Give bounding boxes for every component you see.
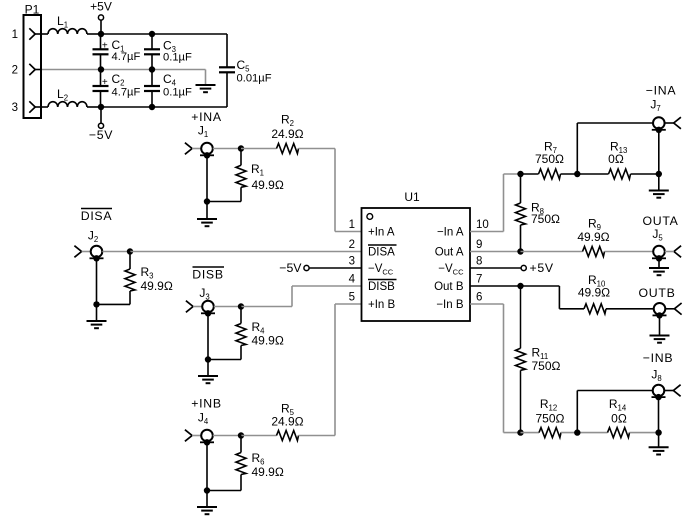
svg-text:J2: J2 <box>88 229 98 244</box>
svg-text:Out A: Out A <box>435 247 464 259</box>
wire pin7 node to R10 <box>521 286 585 309</box>
connector J5 <box>652 227 681 262</box>
svg-text:OUTA: OUTA <box>642 214 678 228</box>
U1 label +In B <box>368 299 396 311</box>
U1 label DISA <box>368 245 397 259</box>
svg-text:750Ω: 750Ω <box>536 412 565 426</box>
wire J3 to U1 pin 4 <box>241 286 362 307</box>
svg-text:2: 2 <box>349 239 355 251</box>
wire tap up to J7 <box>577 123 653 174</box>
svg-text:P1: P1 <box>25 3 40 17</box>
connector J2 <box>74 229 103 262</box>
junction node -5V rail at C2 <box>98 104 104 110</box>
svg-text:L1: L1 <box>57 14 68 29</box>
ground (J8) <box>649 447 669 454</box>
wire L2 to -5V node <box>87 106 101 108</box>
ground (J1) <box>197 219 217 226</box>
junction node J3 ground <box>205 356 211 362</box>
wire U1 pin 9 to R9 <box>470 251 521 253</box>
resistor R4 <box>236 307 284 360</box>
ground (J2) <box>87 321 107 328</box>
ground (J4) <box>197 507 217 514</box>
svg-text:0Ω: 0Ω <box>611 412 627 426</box>
wire J3 shell down <box>207 313 209 359</box>
junction node +5V rail at C3 <box>149 31 155 37</box>
svg-text:C4: C4 <box>163 72 177 87</box>
svg-text:DISB: DISB <box>192 268 224 282</box>
wire J4 to R6 node <box>213 435 241 437</box>
wire to ground J7 <box>658 174 660 191</box>
wire to ground J2 <box>96 304 98 321</box>
svg-text:J3: J3 <box>199 286 209 301</box>
connector J1 <box>185 124 214 159</box>
resistor R8 <box>516 174 561 252</box>
wire to ground J5 <box>658 258 660 268</box>
resistor R14 <box>608 397 659 438</box>
wire J4 shell down <box>206 442 208 490</box>
capacitor C3 <box>144 34 192 70</box>
label DISA <box>81 209 113 224</box>
connector J4 <box>185 411 214 446</box>
junction node J2/R3 <box>127 248 133 254</box>
wire C5 branch top <box>226 34 228 67</box>
svg-text:750Ω: 750Ω <box>532 359 561 373</box>
P1 pin 3 contact <box>29 101 48 112</box>
wire R3 bottom to J2 ground <box>97 303 131 305</box>
wire to ground J8 line <box>658 433 660 448</box>
wire J8 shell down <box>658 397 660 433</box>
U1 label Out B <box>434 281 464 293</box>
svg-text:C2: C2 <box>112 72 125 87</box>
svg-text:+In B: +In B <box>368 299 396 311</box>
U1 label -Vcc left <box>368 263 394 276</box>
wire U1 pin 6 down <box>470 304 521 433</box>
wire mid rail <box>42 69 206 71</box>
svg-text:Out B: Out B <box>434 281 464 293</box>
U1 pin number 6 <box>476 292 482 304</box>
wire J2 to R3 node <box>102 251 130 253</box>
connector J3 <box>186 286 215 316</box>
svg-text:49.9Ω: 49.9Ω <box>252 178 284 192</box>
svg-text:0.01µF: 0.01µF <box>237 73 272 85</box>
capacitor C5 <box>219 58 272 107</box>
junction node J2 ground <box>93 301 99 307</box>
svg-text:−5V: −5V <box>279 261 302 275</box>
svg-text:J4: J4 <box>198 411 209 426</box>
svg-text:−INA: −INA <box>646 84 677 98</box>
svg-text:4.7µF: 4.7µF <box>112 87 141 99</box>
U1 pin number 7 <box>476 274 482 286</box>
U1 label +In A <box>368 227 395 239</box>
svg-text:+In A: +In A <box>368 227 395 239</box>
junction node R7/R8 <box>517 171 523 177</box>
P1 pin 2 number <box>12 65 18 77</box>
junction node mid rail at C3 <box>149 66 155 72</box>
label DISB <box>192 267 224 282</box>
U1 label -In B <box>436 299 464 311</box>
svg-text:−VCC: −VCC <box>438 263 464 276</box>
svg-text:49.9Ω: 49.9Ω <box>578 286 610 300</box>
svg-text:−In A: −In A <box>437 227 464 239</box>
svg-text:J5: J5 <box>652 227 663 242</box>
connector J7 <box>650 98 681 134</box>
svg-text:0.1µF: 0.1µF <box>163 87 192 99</box>
svg-text:0Ω: 0Ω <box>608 152 624 166</box>
svg-text:9: 9 <box>476 239 482 251</box>
svg-text:+5V: +5V <box>530 261 554 275</box>
svg-text:49.9Ω: 49.9Ω <box>577 230 609 244</box>
wire to ground J4 <box>206 491 208 508</box>
U1 label -In A <box>437 227 464 239</box>
U1 pin number 3 <box>349 256 355 268</box>
junction node pin7/R11 <box>517 283 523 289</box>
wire J7 shell down <box>658 130 660 174</box>
connector J8 <box>651 368 680 401</box>
wire J2 to U1 pin 2 <box>130 251 362 253</box>
U1 pin number 8 <box>476 256 482 268</box>
svg-text:49.9Ω: 49.9Ω <box>252 465 284 479</box>
resistor R13 <box>608 140 659 180</box>
capacitor C1 <box>93 34 141 70</box>
wire L1 to +5V node <box>87 33 101 35</box>
wire R2 to U1 pin 1 <box>299 149 362 232</box>
svg-text:3: 3 <box>349 256 355 268</box>
junction node R8/pin9 <box>517 248 523 254</box>
resistor R7 <box>521 140 565 180</box>
wire mid rail drop <box>205 70 207 86</box>
ground (J3) <box>198 376 218 383</box>
wire to ground J6 <box>659 315 661 335</box>
wire R10 to J6 <box>606 308 654 310</box>
P1 pin 1 number <box>12 29 18 41</box>
svg-text:4: 4 <box>349 274 356 286</box>
inductor L2 <box>48 87 87 107</box>
junction node J3/R4 <box>238 303 244 309</box>
wire R12 to R14 node <box>561 432 608 434</box>
U1 pin number 9 <box>476 239 482 251</box>
resistor R2 <box>241 113 304 154</box>
resistor R11 <box>516 286 561 433</box>
wire R9 to J5 <box>605 251 654 253</box>
-5V terminal <box>89 107 113 142</box>
svg-text:0.1µF: 0.1µF <box>163 51 192 63</box>
svg-text:+INB: +INB <box>191 397 221 411</box>
svg-text:+: + <box>102 77 108 88</box>
U1 pin number 1 <box>349 219 355 231</box>
svg-text:4.7µF: 4.7µF <box>112 51 141 63</box>
svg-text:6: 6 <box>476 292 482 304</box>
label OUTA <box>642 214 678 228</box>
resistor R1 <box>236 149 284 202</box>
wire top rail <box>101 33 227 35</box>
wire bottom rail <box>101 106 227 108</box>
svg-text:DISA: DISA <box>368 247 395 259</box>
U1 pin 1 indicator <box>367 214 373 220</box>
ground (J5) <box>649 268 669 275</box>
label +INA <box>191 110 222 124</box>
resistor R6 <box>236 436 284 491</box>
U1 pin number 10 <box>476 219 489 231</box>
svg-text:−In B: −In B <box>436 299 464 311</box>
svg-text:49.9Ω: 49.9Ω <box>141 279 173 293</box>
svg-text:DISA: DISA <box>81 209 113 223</box>
junction node R12/R14/J8 tap <box>574 429 580 435</box>
svg-text:−INB: −INB <box>643 351 673 365</box>
wire to ground J3 <box>207 360 209 377</box>
wire R7 to R13 <box>561 173 609 175</box>
svg-text:7: 7 <box>476 274 482 286</box>
svg-text:R1: R1 <box>251 162 264 177</box>
P1 pin 1 contact <box>29 28 48 39</box>
junction node R13 ground <box>656 171 662 177</box>
U1 label Out A <box>435 247 464 259</box>
ground (J7) <box>649 191 669 198</box>
wire J1 shell down <box>206 155 208 201</box>
-5V terminal (pin 3) <box>279 261 361 275</box>
svg-text:OUTB: OUTB <box>639 286 676 300</box>
svg-text:+: + <box>102 40 108 51</box>
resistor R12 <box>521 397 565 438</box>
resistor R10 <box>578 273 610 314</box>
resistor R5 <box>241 402 304 441</box>
svg-text:3: 3 <box>12 102 18 114</box>
wire tap up to J8 <box>577 391 652 433</box>
connector J6 <box>653 303 682 319</box>
U1 label DISB <box>368 280 397 294</box>
svg-text:49.9Ω: 49.9Ω <box>252 334 284 348</box>
junction node -5V rail at C4 <box>149 104 155 110</box>
wire R4 bottom to J3 ground <box>208 359 241 361</box>
junction node R14 ground <box>655 429 661 435</box>
wire J3 to R4 node <box>214 306 241 308</box>
wire U1 pin 10 to R7 node <box>470 174 521 232</box>
svg-text:+5V: +5V <box>90 0 112 14</box>
resistor R3 <box>125 252 173 305</box>
junction node J4 ground <box>204 487 210 493</box>
junction node +5V rail at C1 <box>98 31 104 37</box>
svg-text:5: 5 <box>349 292 355 304</box>
P1 pin 3 number <box>12 102 18 114</box>
wire pin9 node to R9 <box>521 251 583 253</box>
junction node R11/R12 <box>517 429 523 435</box>
svg-text:24.9Ω: 24.9Ω <box>271 415 303 429</box>
svg-text:1: 1 <box>12 29 18 41</box>
ground (P1 pin 2) <box>196 85 216 92</box>
svg-text:−5V: −5V <box>89 128 113 142</box>
wire J1 to R1 node <box>213 148 241 150</box>
wire R1 bottom to J1 ground <box>207 201 241 203</box>
U1 label -Vcc right <box>438 263 464 276</box>
wire to ground J1 <box>206 202 208 220</box>
svg-text:U1: U1 <box>404 190 420 204</box>
svg-text:1: 1 <box>349 219 355 231</box>
svg-text:J7: J7 <box>650 98 660 113</box>
junction node J4/R5/R6 <box>238 432 244 438</box>
svg-text:8: 8 <box>476 256 482 268</box>
svg-text:C5: C5 <box>237 58 251 73</box>
svg-text:J8: J8 <box>651 368 661 383</box>
svg-text:750Ω: 750Ω <box>535 152 564 166</box>
label +INB <box>191 397 221 411</box>
wire U1 pin 7 to node <box>470 285 521 287</box>
connector P1 <box>24 3 42 119</box>
svg-text:L2: L2 <box>57 87 68 102</box>
junction node R7/R13/J7 tap <box>574 171 580 177</box>
inductor L1 <box>48 14 87 34</box>
wire J2 shell down <box>96 258 98 304</box>
svg-text:24.9Ω: 24.9Ω <box>271 127 303 141</box>
+5V terminal <box>90 0 112 34</box>
capacitor C2 <box>93 70 141 108</box>
svg-text:−VCC: −VCC <box>368 263 394 276</box>
svg-text:DISB: DISB <box>368 281 395 293</box>
svg-text:+INA: +INA <box>191 110 222 124</box>
P1 pin 2 contact <box>29 64 42 75</box>
U1 pin number 5 <box>349 292 355 304</box>
label -INB <box>643 351 673 365</box>
junction node mid rail at C1 <box>98 66 104 72</box>
svg-text:R12: R12 <box>540 397 557 412</box>
resistor R9 <box>577 217 609 257</box>
label -INA <box>646 84 677 98</box>
svg-text:J1: J1 <box>198 124 208 139</box>
wire R6 bottom to J4 ground <box>207 490 241 492</box>
U1 pin number 2 <box>349 239 355 251</box>
svg-text:2: 2 <box>12 65 18 77</box>
ground (J6) <box>650 336 670 343</box>
+5V terminal (pin 8) <box>470 261 554 275</box>
svg-text:750Ω: 750Ω <box>531 212 560 226</box>
svg-text:R2: R2 <box>281 113 294 128</box>
label OUTB <box>639 286 676 300</box>
svg-text:R14: R14 <box>609 397 627 412</box>
junction node J1 ground <box>204 198 210 204</box>
U1 pin number 4 <box>349 274 356 286</box>
svg-text:10: 10 <box>476 219 489 231</box>
capacitor C4 <box>144 70 192 108</box>
wire R5 to U1 pin 5 <box>299 304 362 436</box>
op-amp U1 box <box>362 190 471 321</box>
junction node J1/R1/R2 <box>238 145 244 151</box>
